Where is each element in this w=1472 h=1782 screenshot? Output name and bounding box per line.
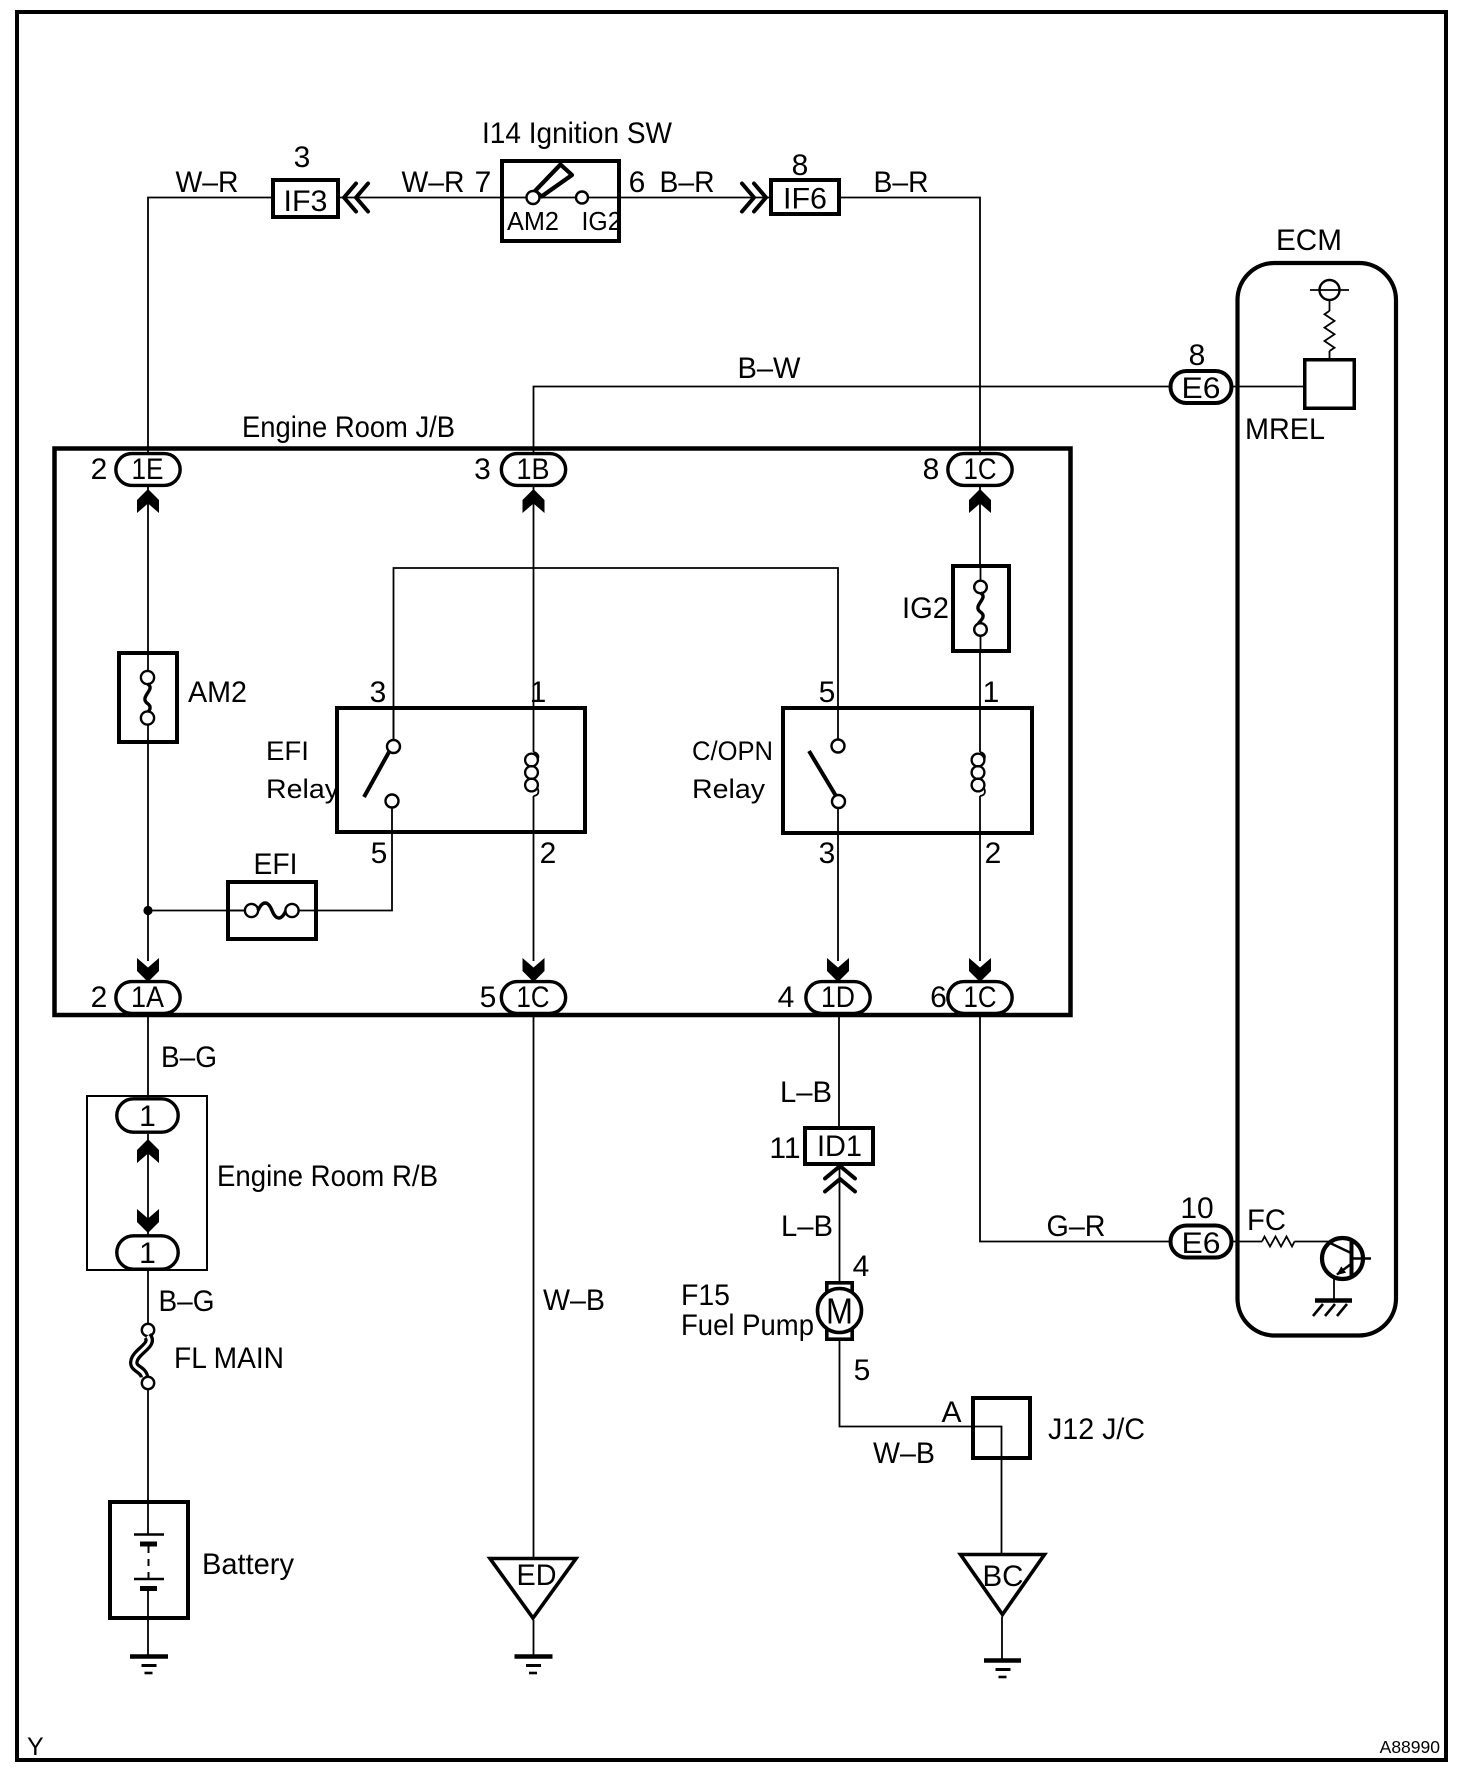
junction connector J12 J/C xyxy=(971,1398,1030,1460)
svg-text:8: 8 xyxy=(1189,339,1206,372)
wire EFI relay coil to 1C(5) xyxy=(533,796,535,961)
svg-text:Engine Room R/B: Engine Room R/B xyxy=(217,1160,438,1193)
svg-text:Y: Y xyxy=(27,1733,44,1761)
svg-text:J12 J/C: J12 J/C xyxy=(1048,1413,1145,1446)
svg-text:IG2: IG2 xyxy=(582,206,622,236)
label F15 Fuel Pump xyxy=(681,1279,814,1342)
connector 1B (pin 3) xyxy=(501,453,565,486)
ground (BC) xyxy=(984,1661,1021,1678)
svg-text:1A: 1A xyxy=(131,981,164,1014)
svg-text:1D: 1D xyxy=(821,981,855,1014)
wire E6 to MREL xyxy=(1234,386,1304,388)
svg-text:3: 3 xyxy=(294,141,311,174)
C/OPN relay switch xyxy=(809,740,845,809)
connector IF6 xyxy=(771,180,839,216)
svg-text:BC: BC xyxy=(983,1560,1024,1593)
EFI relay coil xyxy=(525,752,538,796)
svg-text:AM2: AM2 xyxy=(188,676,247,709)
svg-text:FC: FC xyxy=(1247,1204,1286,1237)
arrow into 1E xyxy=(137,489,159,513)
connector 1 (R/B top) xyxy=(117,1099,178,1133)
svg-text:B–R: B–R xyxy=(660,166,715,199)
fuse IG2 xyxy=(953,564,1009,653)
svg-text:B–R: B–R xyxy=(874,166,929,199)
connector 1C (pin 5) xyxy=(501,981,565,1014)
connector 1 (R/B bottom) xyxy=(117,1236,178,1270)
svg-text:5: 5 xyxy=(819,676,836,709)
transistor Q (fuel pump control) xyxy=(1322,1238,1371,1279)
connector 1C (pin 8) xyxy=(948,453,1012,486)
fusible link FL MAIN xyxy=(134,1324,154,1389)
wire IG2 fuse to C/OPN relay coil xyxy=(979,653,981,752)
svg-text:1C: 1C xyxy=(517,981,550,1014)
svg-text:2: 2 xyxy=(91,981,108,1014)
wire AM2 fuse to 1A xyxy=(147,744,149,961)
wire 1B to EFI relay coil xyxy=(533,487,535,752)
svg-text:5: 5 xyxy=(480,981,497,1014)
wire transistor to ground xyxy=(1333,1278,1335,1300)
svg-text:E6: E6 xyxy=(1182,372,1221,405)
wire junction to EFI fuse xyxy=(148,910,246,912)
chevrons into IF3 xyxy=(344,184,368,212)
wire 1C(6) to ECM E6 pin 10 xyxy=(980,1015,1169,1242)
svg-text:1C: 1C xyxy=(964,981,997,1014)
arrow into 1B xyxy=(523,489,545,513)
ignition switch lever xyxy=(535,165,572,197)
wire B-R: IF6 to Engine Room J/B 1C xyxy=(841,198,980,453)
wire FL MAIN to battery xyxy=(147,1389,149,1500)
ground (ECM chassis) xyxy=(1313,1301,1352,1317)
svg-text:ECM: ECM xyxy=(1276,224,1342,257)
wire J12 to BC xyxy=(1001,1460,1003,1553)
wire fuel pump to J12 xyxy=(840,1341,972,1427)
connector 1E (pin 2) xyxy=(116,453,180,486)
svg-text:FL MAIN: FL MAIN xyxy=(174,1342,284,1375)
wire C/OPN relay pin 3 to 1D xyxy=(837,808,839,961)
label EFI Relay xyxy=(266,736,340,804)
B+ symbol xyxy=(1310,280,1349,300)
svg-text:5: 5 xyxy=(371,837,388,870)
ignition switch contact IG2 xyxy=(576,192,588,204)
wire 1E to AM2 fuse xyxy=(147,487,149,651)
ignition switch I14 box xyxy=(502,161,619,241)
arrow into 1C xyxy=(969,489,991,513)
wire 1D to ID1 xyxy=(838,1015,840,1126)
svg-text:G–R: G–R xyxy=(1047,1210,1106,1243)
svg-text:1B: 1B xyxy=(517,453,550,486)
ground (battery) xyxy=(130,1657,168,1674)
battery xyxy=(110,1500,188,1620)
pull-up resistor (MREL to B+) xyxy=(1325,300,1335,358)
svg-text:C/OPN: C/OPN xyxy=(692,736,773,766)
svg-text:3: 3 xyxy=(474,453,491,486)
wire E6 to FC resistor xyxy=(1234,1241,1263,1243)
svg-text:F15: F15 xyxy=(681,1279,730,1312)
svg-text:W–B: W–B xyxy=(543,1284,605,1317)
chevrons into IF6 xyxy=(742,184,766,212)
MREL driver block xyxy=(1305,360,1355,409)
svg-text:6: 6 xyxy=(629,166,646,199)
arrow into 1C(5) xyxy=(523,958,545,982)
wire EFI relay pin 3 to C/OPN relay pin 5 xyxy=(394,568,839,740)
wire resistor to transistor xyxy=(1295,1241,1330,1243)
svg-text:1E: 1E xyxy=(132,453,164,486)
svg-text:10: 10 xyxy=(1180,1192,1213,1225)
wire B-W: Engine Room J/B 1B to ECM E6 pin 8 xyxy=(534,387,1169,453)
fuse AM2 xyxy=(119,651,177,744)
svg-text:8: 8 xyxy=(923,453,940,486)
svg-text:AM2: AM2 xyxy=(507,206,559,236)
svg-text:W–B: W–B xyxy=(873,1437,935,1470)
svg-text:1: 1 xyxy=(139,1237,156,1270)
wire W-R: IF3 to Engine Room J/B 1E xyxy=(148,198,271,453)
wire 1A to Engine Room R/B xyxy=(147,1015,149,1098)
arrow into 1A xyxy=(137,958,159,982)
svg-text:Relay: Relay xyxy=(692,774,766,804)
ground triangle BC xyxy=(961,1555,1045,1615)
arrow into 1C(6) xyxy=(969,958,991,982)
svg-text:A88990: A88990 xyxy=(1380,1737,1441,1757)
ignition switch contact AM2 xyxy=(527,191,540,204)
svg-text:I14 Ignition SW: I14 Ignition SW xyxy=(482,117,673,150)
svg-text:ED: ED xyxy=(517,1559,557,1592)
svg-text:2: 2 xyxy=(91,453,108,486)
svg-text:Battery: Battery xyxy=(202,1548,294,1581)
svg-text:1C: 1C xyxy=(964,453,997,486)
wire B-R: ignition SW pin 6 to IF6 xyxy=(588,197,769,199)
wire R/B to FL MAIN xyxy=(147,1271,149,1324)
wire ED to ground xyxy=(533,1620,535,1656)
svg-text:Fuel Pump: Fuel Pump xyxy=(681,1309,814,1342)
wire EFI fuse to EFI relay pin 5 xyxy=(318,808,392,911)
svg-text:B–W: B–W xyxy=(738,352,802,385)
wire BC to ground xyxy=(1001,1617,1003,1661)
connector 1D (pin 4) xyxy=(806,981,870,1014)
svg-text:L–B: L–B xyxy=(781,1210,833,1243)
Engine Room R/B box xyxy=(87,1096,207,1270)
connector 1C (pin 6) xyxy=(948,981,1012,1014)
wire inside R/B xyxy=(147,1134,149,1235)
svg-text:IF3: IF3 xyxy=(284,185,328,218)
svg-text:8: 8 xyxy=(792,149,809,182)
connector E6 (pin 10, FC) xyxy=(1171,1226,1232,1261)
svg-text:3: 3 xyxy=(370,676,387,709)
svg-text:M: M xyxy=(826,1291,853,1332)
svg-text:EFI: EFI xyxy=(254,848,298,881)
svg-text:5: 5 xyxy=(854,1354,871,1387)
svg-text:3: 3 xyxy=(819,837,836,870)
svg-text:1: 1 xyxy=(983,676,1000,709)
wire C/OPN relay coil to 1C(6) xyxy=(979,796,981,961)
svg-text:EFI: EFI xyxy=(266,736,309,766)
svg-text:4: 4 xyxy=(853,1250,870,1283)
junction dot xyxy=(143,906,152,915)
svg-text:2: 2 xyxy=(985,837,1002,870)
connector ID1 xyxy=(805,1128,873,1164)
svg-text:7: 7 xyxy=(475,166,492,199)
wire battery to ground xyxy=(147,1620,149,1656)
chevrons out of ID1 xyxy=(825,1166,855,1192)
ground (ED) xyxy=(515,1657,553,1674)
fuse EFI xyxy=(226,882,318,939)
svg-text:ID1: ID1 xyxy=(817,1130,862,1163)
svg-text:L–B: L–B xyxy=(780,1076,832,1109)
svg-text:A: A xyxy=(941,1396,961,1429)
Engine Room J/B box xyxy=(55,449,1071,1016)
svg-text:IG2: IG2 xyxy=(902,592,949,625)
svg-text:IF6: IF6 xyxy=(783,183,827,216)
svg-text:B–G: B–G xyxy=(159,1285,215,1318)
arrow (R/B, up) xyxy=(137,1139,159,1163)
resistor FC xyxy=(1262,1237,1295,1247)
ground triangle ED xyxy=(490,1559,576,1619)
svg-text:MREL: MREL xyxy=(1245,413,1325,446)
svg-text:1: 1 xyxy=(530,676,547,709)
fuel pump F15 motor xyxy=(818,1283,862,1339)
connector IF3 xyxy=(273,180,338,218)
svg-text:W–R: W–R xyxy=(176,166,239,199)
svg-text:11: 11 xyxy=(769,1132,800,1165)
svg-text:6: 6 xyxy=(930,981,947,1014)
svg-text:2: 2 xyxy=(540,837,557,870)
arrow (R/B, down) xyxy=(137,1209,159,1233)
C/OPN relay box xyxy=(783,708,1032,833)
connector E6 (pin 8, MREL) xyxy=(1171,371,1232,405)
wire W-R: ignition SW pin 7 to IF3 xyxy=(340,197,500,199)
svg-text:1: 1 xyxy=(139,1100,156,1133)
EFI relay box xyxy=(337,708,585,832)
svg-text:Engine Room J/B: Engine Room J/B xyxy=(242,411,455,444)
label C/OPN Relay xyxy=(692,736,773,804)
svg-text:Relay: Relay xyxy=(266,774,340,804)
connector 1A (pin 2) xyxy=(116,981,180,1014)
ECM box xyxy=(1238,263,1397,1336)
wire 1C(8) to IG2 fuse xyxy=(979,487,981,564)
svg-text:E6: E6 xyxy=(1182,1227,1221,1260)
wire ID1 to fuel pump xyxy=(839,1166,841,1281)
svg-text:W–R: W–R xyxy=(402,166,465,199)
svg-text:4: 4 xyxy=(778,981,795,1014)
arrow into 1D xyxy=(827,958,849,982)
wire 1C(5) to ED xyxy=(533,1015,535,1559)
svg-text:B–G: B–G xyxy=(161,1041,217,1074)
wire inside ignition switch xyxy=(500,197,576,199)
EFI relay switch xyxy=(364,708,400,808)
C/OPN relay coil xyxy=(972,752,985,796)
